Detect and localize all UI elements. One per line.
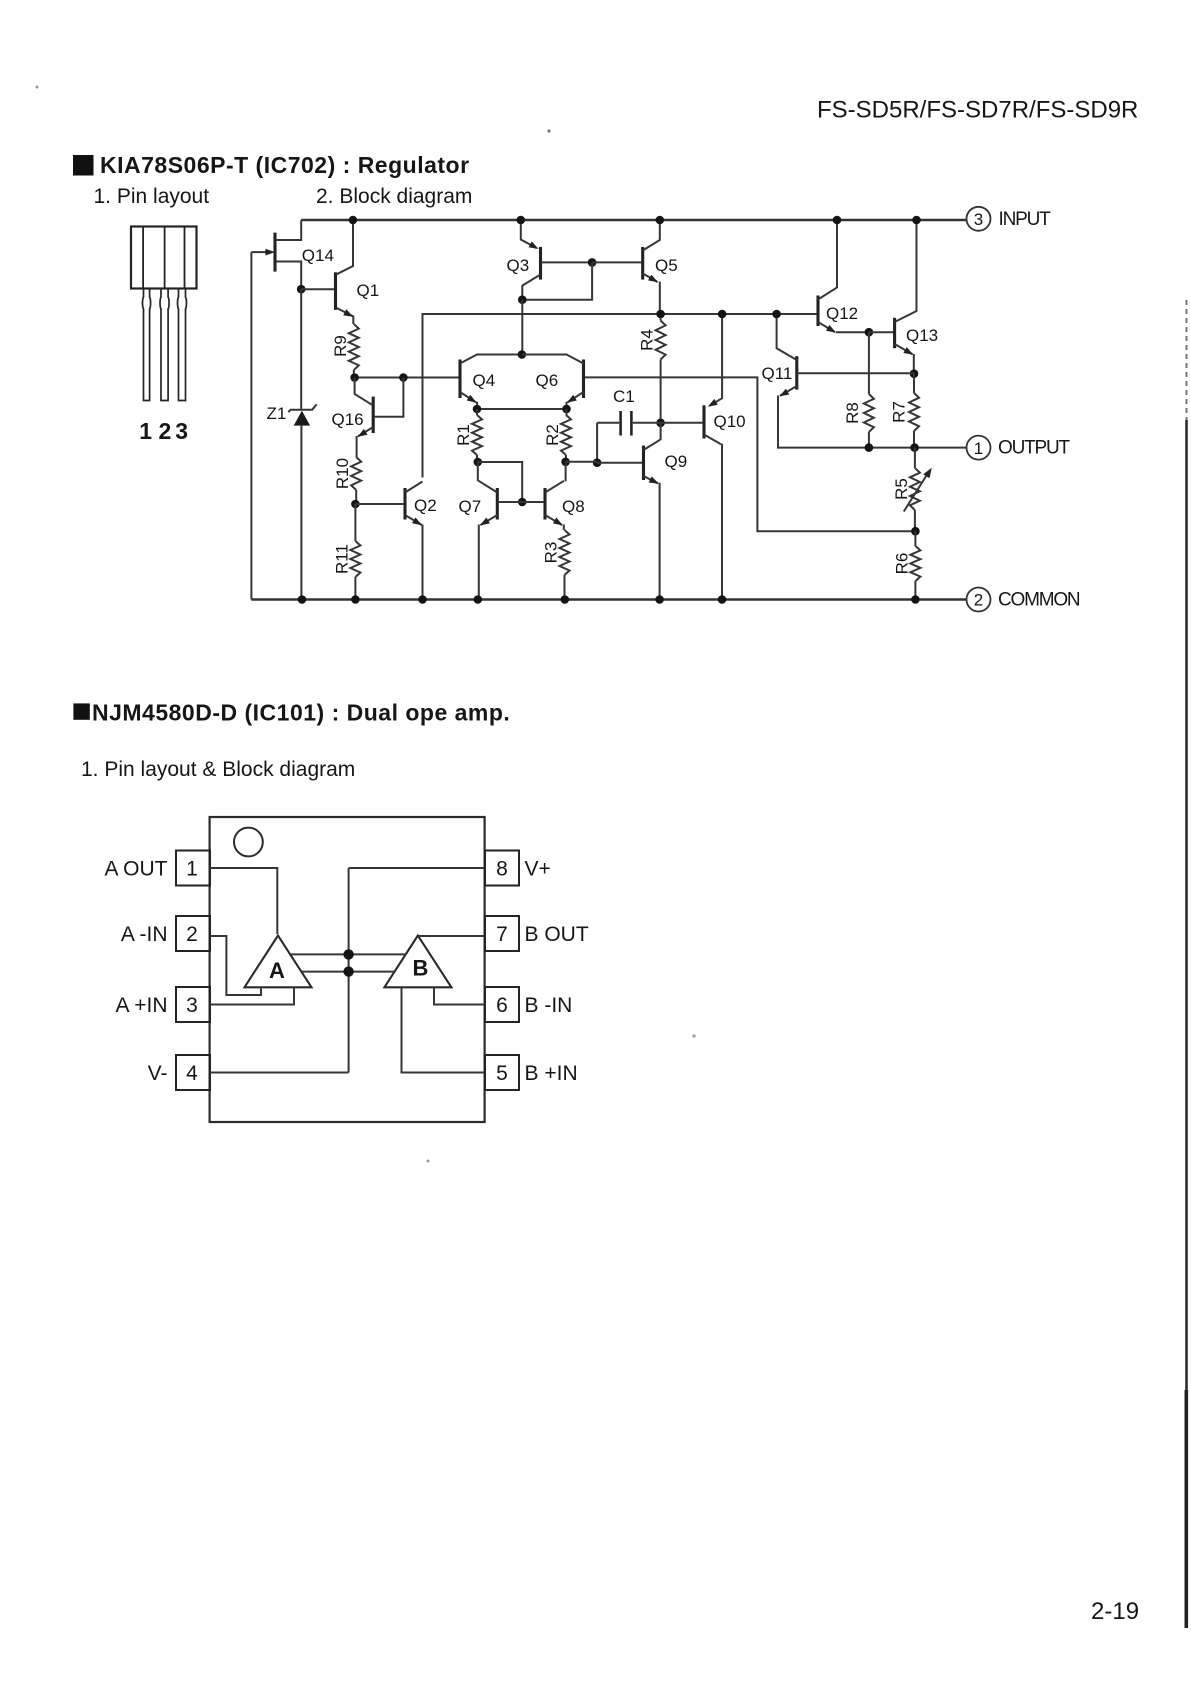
wire: Q9 base line bbox=[566, 461, 643, 464]
transistor Q14 bbox=[251, 220, 334, 289]
wire: COMMON rail (bottom) bbox=[251, 598, 966, 600]
svg-text:KIA78S06P-T (IC702) : Regulato: KIA78S06P-T (IC702) : Regulator bbox=[100, 152, 470, 178]
junction dot: Q13 emitter / Q11 base / R7 top bbox=[910, 369, 919, 378]
wire: op-amp A to op-amp B lower link bbox=[302, 971, 395, 973]
svg-text:Q16: Q16 bbox=[332, 410, 364, 429]
svg-text:R5: R5 bbox=[892, 478, 911, 500]
wire: pin 3 A +IN to op-amp A non-inverting input bbox=[210, 987, 294, 1004]
svg-text:7: 7 bbox=[496, 923, 508, 946]
junction dot: Q14 source / Q1 base / Z1 node bbox=[297, 285, 306, 294]
svg-text:1: 1 bbox=[974, 439, 983, 458]
resistor R11 bbox=[332, 504, 360, 600]
page model header text FS-SD5R/FS-SD7R/FS-SD9R bbox=[817, 97, 1138, 124]
junction dot: Q1 collector on INPUT rail bbox=[349, 216, 358, 225]
svg-text:Q14: Q14 bbox=[302, 246, 334, 265]
transistor Q8 bbox=[522, 462, 584, 530]
wire: pin 8 V+ line bbox=[349, 867, 485, 869]
wire: Q3 base-collector tie bbox=[522, 262, 592, 299]
wire: left vertical from Q14 gate to COMMON rail bbox=[250, 252, 252, 599]
junction dot: Q3/Q5 base node bbox=[588, 258, 597, 267]
transistor Q9 bbox=[644, 423, 688, 600]
svg-text:R4: R4 bbox=[638, 329, 657, 351]
junction dot: R6 bottom on COMMON rail bbox=[911, 595, 920, 604]
resistor R7 bbox=[890, 374, 920, 448]
svg-text:A +IN: A +IN bbox=[116, 994, 168, 1017]
svg-text:V+: V+ bbox=[525, 858, 551, 881]
junction dot: R4 bottom / C1 / Q9 collector / Q10 base bbox=[656, 419, 665, 428]
wire: pin 5 B +IN to op-amp B non-inverting input bbox=[402, 987, 485, 1072]
transistor Q4 bbox=[460, 355, 522, 410]
svg-text:R6: R6 bbox=[892, 553, 911, 575]
resistor R1 bbox=[454, 409, 482, 462]
svg-text:NJM4580D-D (IC101) : Dual ope: NJM4580D-D (IC101) : Dual ope amp. bbox=[92, 700, 510, 726]
junction dot: R10/R11/Q2 base node bbox=[351, 500, 360, 509]
zener diode Z1 bbox=[267, 289, 317, 599]
wire: pin 1 A OUT to op-amp A output apex bbox=[210, 868, 278, 934]
svg-text:Q8: Q8 bbox=[562, 497, 585, 516]
junction dot: R7 bottom on OUTPUT line bbox=[910, 443, 919, 452]
resistor R8 bbox=[843, 332, 874, 447]
wire: mid rail from Q2 collector to Q12 base bbox=[423, 314, 819, 478]
svg-text:R1: R1 bbox=[454, 424, 473, 446]
package lead pin 2 bbox=[160, 289, 169, 401]
junction dot: riser / lower link bbox=[343, 966, 353, 976]
junction dot: C1 left lead / Q9 base node bbox=[593, 458, 602, 467]
junction dot: R8 bottom on OUTPUT line bbox=[865, 443, 874, 452]
transistor Q5 bbox=[592, 220, 678, 314]
svg-text:R7: R7 bbox=[890, 401, 909, 423]
transistor Q16 bbox=[332, 378, 404, 458]
wire: Q12 emitter to Q13 base bbox=[869, 331, 894, 333]
svg-text:A: A bbox=[269, 958, 285, 983]
scan specks bbox=[36, 86, 696, 1163]
junction dot: R3 bottom on COMMON rail bbox=[561, 595, 570, 604]
wire: OUTPUT line bbox=[778, 397, 967, 448]
svg-text:R10: R10 bbox=[333, 458, 352, 489]
junction dot: Z1 anode on COMMON rail bbox=[298, 595, 307, 604]
junction dot: R9 bottom / Q16 collector bbox=[350, 373, 359, 382]
svg-text:1: 1 bbox=[139, 418, 152, 444]
svg-text:OUTPUT: OUTPUT bbox=[998, 438, 1071, 459]
svg-text:FS-SD5R/FS-SD7R/FS-SD9R: FS-SD5R/FS-SD7R/FS-SD9R bbox=[817, 97, 1138, 124]
wire: Q3 collector to Q4/Q6 emitter node bbox=[521, 300, 523, 355]
wire: R1/R2 top tie bbox=[477, 408, 567, 410]
transistor Q11 bbox=[762, 314, 915, 397]
svg-text:B: B bbox=[413, 956, 429, 981]
transistor Q3 bbox=[507, 220, 593, 300]
svg-text:R9: R9 bbox=[331, 335, 350, 357]
wire: pin 6 B -IN to op-amp B inverting input bbox=[434, 987, 485, 1004]
svg-text:Z1: Z1 bbox=[267, 404, 287, 423]
svg-text:B +IN: B +IN bbox=[525, 1062, 578, 1085]
junction dot: R5/R6 divider node bbox=[911, 527, 920, 536]
junction dot: R11 bottom on COMMON rail bbox=[351, 595, 360, 604]
svg-text:3: 3 bbox=[974, 210, 983, 229]
caption 1. Pin layout bbox=[94, 185, 210, 208]
wire: Q4 base line from R9/Q16 node bbox=[355, 377, 460, 379]
pin 4 box (V-) bbox=[148, 1055, 210, 1090]
svg-text:8: 8 bbox=[496, 857, 508, 880]
svg-text:2-19: 2-19 bbox=[1091, 1598, 1139, 1625]
resistor R9 bbox=[331, 324, 359, 378]
svg-text:Q13: Q13 bbox=[906, 326, 938, 345]
junction dot: Q7 emitter on COMMON rail bbox=[474, 595, 483, 604]
section title KIA78S06P-T (IC702) : Regulator bbox=[100, 152, 470, 178]
wire: Q7 collector-base tie bbox=[478, 462, 522, 502]
pin 7 box (B OUT) bbox=[485, 916, 589, 951]
op-amp B triangle bbox=[384, 936, 451, 988]
resistor R10 bbox=[333, 457, 361, 504]
svg-text:B -IN: B -IN bbox=[525, 994, 573, 1017]
transistor Q12 bbox=[818, 220, 869, 333]
variable resistor R5 bbox=[892, 448, 932, 532]
junction dot: Q16 base riser on Q4 base line bbox=[399, 373, 408, 382]
svg-text:2. Block diagram: 2. Block diagram bbox=[316, 185, 472, 208]
junction dot: Q6 collector / R2 top bbox=[562, 405, 571, 414]
junction dot: Q3 emitter on INPUT rail bbox=[517, 216, 526, 225]
junction dot: Q4/Q6 emitter common node bbox=[518, 350, 527, 359]
terminal pin 3 INPUT bbox=[967, 207, 1052, 231]
junction dot: Q2 emitter on COMMON rail bbox=[418, 595, 427, 604]
svg-text:R11: R11 bbox=[332, 544, 351, 574]
svg-text:Q7: Q7 bbox=[459, 497, 482, 516]
svg-text:B OUT: B OUT bbox=[525, 923, 589, 946]
svg-text:C1: C1 bbox=[613, 387, 635, 406]
svg-text:3: 3 bbox=[175, 418, 188, 444]
svg-text:Q1: Q1 bbox=[357, 281, 380, 300]
pin 6 box (B -IN) bbox=[485, 987, 572, 1022]
pin 8 box (V+) bbox=[485, 851, 551, 886]
junction dot: R2 bottom / Q8 collector bbox=[561, 458, 570, 467]
svg-text:COMMON: COMMON bbox=[998, 590, 1080, 611]
junction dot: Q13 collector on INPUT rail bbox=[912, 216, 921, 225]
scan artifact: right edge line bbox=[1185, 300, 1187, 1628]
svg-text:Q12: Q12 bbox=[826, 304, 858, 323]
junction dot: riser / upper link bbox=[343, 949, 353, 959]
svg-text:R8: R8 bbox=[843, 402, 862, 424]
transistor Q2 bbox=[355, 482, 436, 600]
wire: pin 7 B OUT from op-amp B apex bbox=[418, 935, 485, 937]
junction dot: Q11 collector on mid rail bbox=[772, 310, 781, 319]
package lead pin 1 bbox=[143, 289, 151, 401]
capacitor C1 bbox=[597, 387, 661, 463]
caption 1. Pin layout &amp; Block diagram bbox=[81, 758, 355, 781]
wire: INPUT rail (top) bbox=[301, 219, 966, 221]
junction dot: Q12 emitter / R8 top bbox=[865, 328, 874, 337]
resistor R6 bbox=[892, 531, 920, 599]
terminal pin 1 OUTPUT bbox=[967, 436, 1071, 460]
wire: feedback line from Q6 base to R5/R6 divider bbox=[584, 377, 916, 531]
svg-text:Q11: Q11 bbox=[762, 364, 793, 383]
svg-text:Q6: Q6 bbox=[536, 371, 559, 390]
svg-text:1. Pin layout: 1. Pin layout bbox=[94, 185, 210, 208]
page number 2-19 bbox=[1091, 1598, 1139, 1625]
svg-text:Q3: Q3 bbox=[507, 256, 530, 275]
svg-text:4: 4 bbox=[186, 1062, 198, 1085]
pin 5 box (B +IN) bbox=[485, 1055, 578, 1090]
IC702 package body (pin layout) bbox=[131, 227, 197, 289]
caption 2. Block diagram bbox=[316, 185, 472, 208]
junction dot: Q9 emitter on COMMON rail bbox=[655, 595, 664, 604]
junction dot: Q5 collector on INPUT rail bbox=[656, 216, 665, 225]
svg-text:A OUT: A OUT bbox=[104, 858, 167, 881]
resistor R3 bbox=[542, 530, 570, 600]
svg-text:6: 6 bbox=[496, 994, 508, 1017]
transistor Q10 bbox=[661, 314, 746, 600]
svg-text:Q2: Q2 bbox=[414, 496, 437, 515]
wire: pin 4 V- line bbox=[210, 1072, 349, 1074]
svg-text:R2: R2 bbox=[543, 424, 562, 446]
svg-text:INPUT: INPUT bbox=[999, 209, 1052, 230]
pin numbers 1 2 3 bbox=[139, 418, 188, 444]
junction dot: R1 bottom / Q7 collector bbox=[474, 458, 483, 467]
transistor Q7 bbox=[459, 462, 523, 600]
junction dot: R4 top on mid rail bbox=[656, 310, 665, 319]
svg-text:Q5: Q5 bbox=[655, 256, 678, 275]
svg-text:2: 2 bbox=[186, 923, 198, 946]
wire: center riser bbox=[348, 868, 350, 1073]
svg-text:3: 3 bbox=[186, 994, 198, 1017]
junction dot: Q10 emitter on mid rail bbox=[718, 310, 727, 319]
pin 1 box (A OUT) bbox=[104, 851, 210, 886]
pin 1 index circle bbox=[234, 828, 263, 857]
transistor Q13 bbox=[895, 220, 939, 374]
junction dot: Q7/Q8 base node bbox=[518, 498, 527, 507]
junction dot: Q12 collector on INPUT rail bbox=[833, 216, 842, 225]
resistor R4 bbox=[638, 314, 666, 423]
terminal pin 2 COMMON bbox=[967, 588, 1080, 612]
junction dot: Q4 collector / R1 top bbox=[473, 405, 482, 414]
op-amp A triangle bbox=[245, 936, 312, 988]
resistor R2 bbox=[543, 409, 571, 462]
transistor Q6 bbox=[522, 355, 584, 410]
junction dot: Q3 collector node bbox=[518, 295, 527, 304]
wire: pin 2 A -IN to op-amp A inverting input bbox=[210, 936, 261, 995]
svg-text:Q10: Q10 bbox=[714, 412, 746, 431]
wire: op-amp A to op-amp B upper link bbox=[290, 953, 406, 955]
IC101 package body bbox=[210, 817, 485, 1122]
section title NJM4580D-D (IC101) : Dual ope amp. bbox=[92, 700, 510, 726]
svg-text:A -IN: A -IN bbox=[121, 923, 168, 946]
svg-text:Q4: Q4 bbox=[473, 371, 496, 390]
section marker square (dual op amp) bbox=[73, 703, 89, 719]
svg-text:1: 1 bbox=[186, 857, 198, 880]
svg-text:2: 2 bbox=[159, 418, 172, 444]
svg-text:Q9: Q9 bbox=[665, 452, 688, 471]
junction dot: Q10 collector on COMMON rail bbox=[718, 595, 727, 604]
svg-text:R3: R3 bbox=[542, 542, 561, 564]
transistor Q1 bbox=[301, 220, 379, 324]
svg-text:5: 5 bbox=[496, 1062, 508, 1085]
svg-text:1. Pin layout & Block diagram: 1. Pin layout & Block diagram bbox=[81, 758, 355, 781]
pin 3 box (A +IN) bbox=[116, 987, 210, 1022]
svg-text:2: 2 bbox=[974, 591, 983, 610]
svg-text:V-: V- bbox=[148, 1062, 168, 1085]
section marker square (regulator) bbox=[73, 155, 94, 176]
pin 2 box (A -IN) bbox=[121, 916, 210, 951]
package lead pin 3 bbox=[178, 289, 187, 401]
